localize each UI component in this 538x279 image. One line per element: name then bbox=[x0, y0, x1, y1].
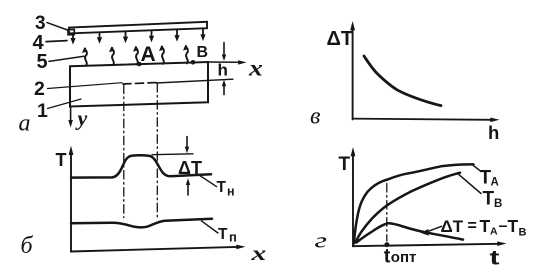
svg-text:=: = bbox=[468, 218, 477, 235]
svg-text:В: В bbox=[494, 198, 502, 210]
svg-text:г: г bbox=[315, 228, 328, 252]
svg-text:Т: Т bbox=[483, 189, 495, 210]
svg-text:h: h bbox=[488, 122, 499, 143]
svg-text:x: x bbox=[248, 56, 263, 81]
svg-text:ΔТ: ΔТ bbox=[178, 158, 202, 178]
svg-text:3: 3 bbox=[35, 13, 46, 34]
svg-text:в: в bbox=[310, 104, 320, 130]
svg-text:ΔТ: ΔТ bbox=[441, 217, 464, 236]
svg-text:А: А bbox=[491, 177, 499, 189]
svg-text:x: x bbox=[250, 241, 266, 265]
svg-text:В: В bbox=[519, 227, 527, 239]
svg-text:1: 1 bbox=[37, 100, 48, 122]
svg-text:ΔT: ΔT bbox=[327, 28, 354, 50]
svg-text:t: t bbox=[490, 247, 501, 269]
svg-text:б: б bbox=[21, 233, 34, 259]
svg-text:t: t bbox=[384, 246, 391, 268]
svg-text:B: B bbox=[197, 44, 209, 61]
svg-text:h: h bbox=[218, 61, 228, 80]
svg-text:2: 2 bbox=[34, 78, 45, 100]
svg-text:T: T bbox=[56, 150, 67, 170]
svg-text:–: – bbox=[499, 218, 508, 235]
svg-text:Т: Т bbox=[508, 216, 519, 236]
svg-text:А: А bbox=[490, 226, 498, 238]
svg-text:y: y bbox=[75, 106, 88, 131]
svg-text:Т: Т bbox=[480, 216, 491, 236]
svg-text:н: н bbox=[227, 185, 235, 199]
svg-text:A: A bbox=[141, 43, 156, 66]
svg-text:а: а bbox=[19, 111, 31, 137]
svg-text:T: T bbox=[339, 154, 351, 175]
svg-text:5: 5 bbox=[37, 51, 48, 73]
svg-text:Т: Т bbox=[217, 179, 227, 196]
svg-text:п: п bbox=[229, 230, 237, 245]
svg-text:Т: Т bbox=[218, 226, 228, 243]
svg-text:опт: опт bbox=[391, 249, 417, 266]
